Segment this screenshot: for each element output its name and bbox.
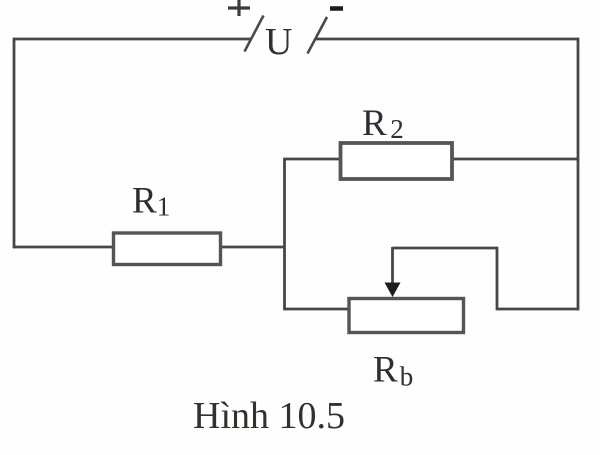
wire: Rb branch, node to Rb left terminal [284, 308, 349, 311]
wire: right vertical [577, 38, 580, 310]
voltage source: plus terminal sign [228, 0, 250, 16]
wire: top right segment from source to right corner [316, 38, 579, 41]
svg-text:U: U [265, 21, 292, 63]
wire: wiper right vertical drop [496, 247, 499, 310]
rheostat Rb box [349, 299, 464, 333]
wire: bottom-left horizontal, left of R1 [13, 246, 114, 249]
rheostat Rb wiper arrowhead [385, 283, 401, 298]
svg-text:Rb: Rb [373, 350, 413, 392]
wire: top left segment from left corner to source [13, 38, 251, 41]
wire: bottom-left horizontal, R1 to middle node [221, 246, 285, 249]
svg-text:Hình 10.5: Hình 10.5 [193, 395, 345, 437]
wire: R2 right terminal to right vertical [452, 158, 579, 161]
wire: wiper top horizontal [393, 247, 499, 250]
voltage source: minus terminal sign [330, 6, 343, 11]
wire: wiper bottom horizontal to right vertical [496, 308, 579, 311]
resistor R2 box [341, 143, 453, 179]
wire: left vertical [13, 38, 16, 248]
resistor R1 box [114, 233, 221, 265]
wire: R2 branch, node to R2 left terminal [284, 158, 341, 161]
voltage source U: right slash [308, 17, 328, 54]
svg-text:R2: R2 [362, 103, 404, 144]
wire: rheostat wiper vertical stem [391, 247, 394, 286]
svg-text:R1: R1 [132, 181, 170, 222]
voltage source U: left slash [245, 16, 264, 52]
wire: middle vertical (node between R1, R2 and Rb) [283, 158, 286, 310]
